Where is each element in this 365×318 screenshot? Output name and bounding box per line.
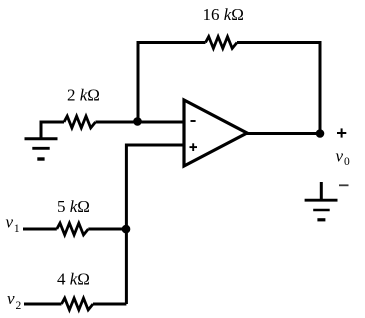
svg-text:v: v <box>7 289 15 308</box>
node B summing junction dot <box>122 225 131 234</box>
wire v2 to corner <box>93 303 126 306</box>
svg-text:v: v <box>336 146 344 165</box>
svg-text:4 kΩ: 4 kΩ <box>57 270 90 289</box>
label v2 <box>7 289 22 312</box>
ground GND1 left <box>25 139 58 159</box>
svg-text:16 kΩ: 16 kΩ <box>203 5 244 24</box>
resistor R_f 16k zigzag <box>206 37 238 49</box>
output minus polarity sign <box>339 184 349 186</box>
wire top-right horizontal lead <box>237 41 322 44</box>
wire non-inverting input <box>126 145 184 304</box>
node Vo output dot <box>316 129 325 138</box>
wire v1 branch lead <box>23 228 57 231</box>
svg-text:2 kΩ: 2 kΩ <box>67 85 100 104</box>
ground GND2 output reference <box>305 182 338 220</box>
op-amp minus input sign <box>191 120 196 122</box>
svg-text:5 kΩ: 5 kΩ <box>57 197 90 216</box>
wire top-left horizontal lead <box>137 41 206 44</box>
wire right vertical feedback <box>319 41 322 134</box>
wire left vertical feedback <box>137 41 140 122</box>
output plus polarity sign <box>337 128 346 137</box>
label v0 <box>336 146 351 168</box>
svg-text:2: 2 <box>16 300 22 312</box>
wire inverting input <box>96 121 185 124</box>
svg-text:v: v <box>6 212 14 231</box>
wire op-amp output <box>246 132 320 135</box>
op-amp plus input sign <box>190 143 198 151</box>
resistor R2 5k zigzag <box>57 223 89 235</box>
resistor R3 4k zigzag <box>62 298 94 310</box>
wire v2 branch lead <box>24 303 62 306</box>
svg-text:1: 1 <box>14 223 20 235</box>
svg-text:0: 0 <box>344 156 350 168</box>
wire 2k branch: ground corner to resistor <box>41 122 64 139</box>
wire v1 to junction <box>88 228 126 231</box>
op-amp U1 triangle <box>184 100 247 166</box>
label v1 <box>6 212 20 235</box>
node A inverting junction dot <box>133 117 142 126</box>
resistor R1 2k zigzag <box>64 116 96 128</box>
